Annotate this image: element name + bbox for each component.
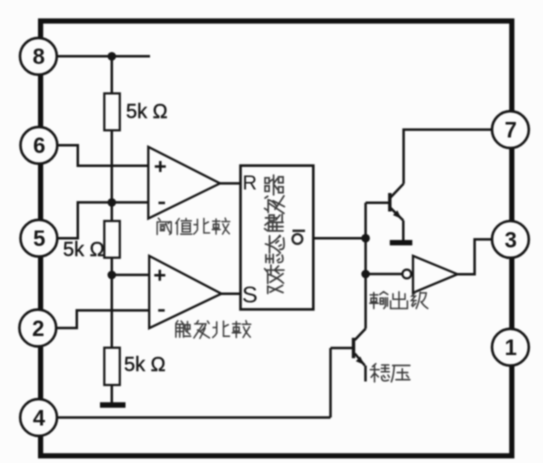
op-amp comparator2 trigger — [149, 256, 221, 328]
wire Q output to transistor base node — [313, 237, 365, 240]
svg-text:7: 7 — [505, 118, 517, 143]
svg-text:6: 6 — [33, 133, 45, 158]
wire divider chain — [111, 56, 114, 402]
node dot Q line — [361, 234, 370, 243]
wire pin8 stub — [57, 55, 150, 58]
pin 1 — [492, 329, 529, 366]
comparator2 minus sign — [158, 309, 165, 312]
svg-text:3: 3 — [505, 227, 517, 252]
wire vertical branch line — [364, 203, 367, 329]
inverter U2 output stage — [402, 256, 457, 293]
label threshold comparator — [157, 218, 230, 234]
wire pin4 horizontal — [57, 416, 331, 419]
svg-text:4: 4 — [33, 405, 46, 430]
wire inverter input — [366, 273, 403, 276]
op-amp comparator1 threshold — [148, 147, 220, 219]
comparator2 plus sign — [154, 270, 165, 281]
transistor Q2 regulator — [354, 329, 366, 382]
resistor R1 — [104, 93, 120, 130]
node dot inverter branch — [361, 270, 370, 279]
svg-text:5: 5 — [33, 226, 45, 251]
resistor R3 — [104, 348, 120, 385]
svg-text:S: S — [242, 282, 258, 308]
pin 5 — [21, 220, 58, 257]
pin 8 — [20, 38, 57, 75]
flip-flop box U1 bistable — [241, 166, 314, 310]
pin 6 — [21, 127, 58, 164]
svg-text:5k Ω: 5k Ω — [124, 354, 166, 376]
svg-text:R: R — [243, 173, 257, 195]
node A dot — [108, 198, 117, 207]
label trigger comparator — [176, 321, 251, 339]
wire comparator2 out to S — [221, 292, 240, 295]
pin label Qbar rotated — [293, 230, 306, 232]
label bistable flip-flop vertical text — [265, 175, 285, 293]
ground Q1 emitter — [390, 240, 413, 245]
wire pin6 to comparator1 plus — [56, 145, 149, 165]
pin 4 — [20, 399, 57, 436]
svg-text:2: 2 — [32, 316, 44, 341]
label output stage — [370, 292, 428, 309]
svg-text:5k Ω: 5k Ω — [126, 101, 168, 123]
pin 3 — [492, 221, 529, 258]
label regulator — [370, 364, 409, 382]
ground divider bar — [100, 402, 126, 408]
wire pin2 to comparator2 minus — [57, 310, 151, 328]
svg-text:8: 8 — [33, 44, 45, 69]
wire pin5 to node A and comparator1 minus — [56, 202, 149, 238]
svg-text:5k Ω: 5k Ω — [63, 239, 105, 261]
node B dot — [108, 271, 117, 280]
pin 7 — [492, 111, 529, 148]
comparator1 minus sign — [159, 202, 166, 205]
transistor Q1 discharge — [366, 184, 404, 241]
comparator1 plus sign — [155, 161, 166, 172]
wire comparator1 out to R — [220, 182, 241, 185]
wire Q2 base from pin4 — [331, 348, 353, 418]
node junction dot top — [108, 52, 117, 61]
wire pin7 to Q1 collector — [404, 130, 492, 184]
wire node B to comparator2 plus — [112, 274, 150, 277]
wire inverter out to pin3 — [457, 239, 492, 274]
pin 2 — [19, 310, 56, 347]
svg-text:1: 1 — [505, 335, 517, 360]
resistor R2 — [104, 221, 120, 258]
